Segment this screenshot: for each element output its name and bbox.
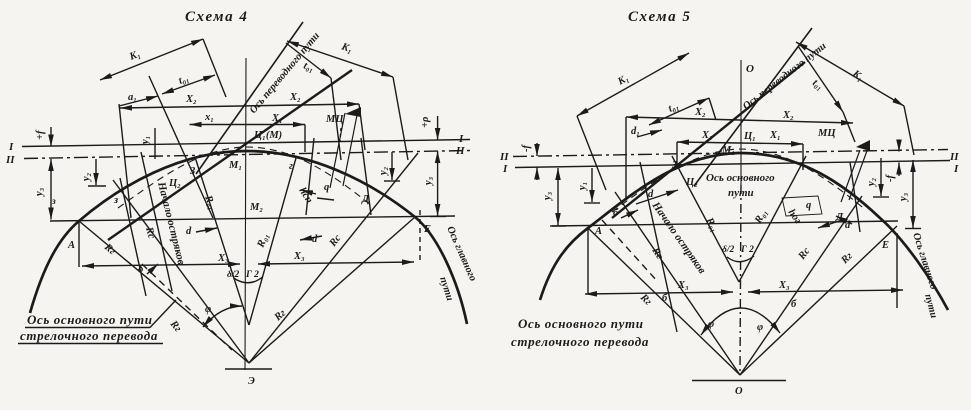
- svg-text:Rс: Rс: [796, 246, 813, 263]
- svg-text:a₁: a₁: [128, 92, 137, 103]
- svg-text:t₀₁: t₀₁: [810, 78, 825, 93]
- svg-text:+f: +f: [35, 129, 46, 140]
- svg-text:А: А: [594, 226, 602, 237]
- svg-text:y₂: y₂: [378, 166, 389, 177]
- svg-text:q: q: [324, 182, 329, 193]
- svg-text:стрелочного перевода: стрелочного перевода: [20, 328, 158, 343]
- svg-text:Rг: Rг: [839, 251, 855, 267]
- svg-text:X₂: X₂: [694, 107, 706, 118]
- svg-text:з: з: [113, 195, 118, 206]
- svg-text:-f: -f: [521, 144, 532, 152]
- svg-text:δ/2: δ/2: [722, 245, 735, 255]
- svg-text:б: б: [613, 208, 619, 219]
- svg-text:x₁: x₁: [204, 112, 214, 123]
- svg-text:Начало остряков: Начало остряков: [155, 180, 187, 266]
- svg-text:φ: φ: [205, 304, 211, 315]
- svg-text:Ось основного: Ось основного: [706, 172, 775, 184]
- svg-text:φ: φ: [757, 322, 763, 333]
- svg-text:+ρ: +ρ: [420, 116, 431, 128]
- svg-text:Ось переводного пути: Ось переводного пути: [741, 41, 829, 113]
- svg-text:R₀₁: R₀₁: [202, 193, 218, 211]
- svg-text:I: I: [458, 133, 464, 145]
- svg-text:Схема 4: Схема 4: [185, 9, 248, 25]
- svg-text:пути: пути: [922, 293, 939, 320]
- svg-text:Е: Е: [423, 224, 431, 235]
- svg-text:y₃: y₃: [542, 191, 553, 202]
- svg-text:II: II: [499, 151, 509, 163]
- svg-text:пути: пути: [437, 276, 455, 303]
- svg-text:t₀₁: t₀₁: [302, 60, 315, 74]
- svg-text:K₁: K₁: [339, 41, 354, 55]
- svg-text:y₃: y₃: [423, 176, 434, 187]
- svg-text:d: d: [186, 226, 192, 237]
- svg-text:X₃: X₃: [293, 251, 305, 262]
- svg-text:пути: пути: [728, 187, 754, 199]
- svg-text:II: II: [5, 154, 15, 166]
- svg-text:I: I: [953, 163, 959, 175]
- svg-text:Rг: Rг: [101, 241, 117, 257]
- svg-text:Rг: Rг: [167, 318, 183, 334]
- svg-text:О: О: [735, 386, 743, 397]
- svg-text:X₂: X₂: [289, 92, 301, 103]
- svg-text:Ось главного: Ось главного: [444, 225, 478, 283]
- svg-text:Д: Д: [361, 194, 370, 205]
- svg-text:q: q: [806, 200, 811, 211]
- svg-text:δ: δ: [138, 264, 144, 275]
- svg-text:y₁: y₁: [140, 136, 151, 146]
- svg-text:Ось основного пути: Ось основного пути: [27, 312, 153, 327]
- svg-text:X₁: X₁: [271, 113, 283, 124]
- svg-text:X₁: X₁: [769, 130, 781, 141]
- svg-text:X₃: X₃: [677, 280, 689, 291]
- svg-text:М₁: М₁: [228, 160, 242, 171]
- svg-text:d₁: d₁: [631, 126, 640, 137]
- svg-text:б: б: [662, 293, 668, 304]
- svg-text:K₁: K₁: [615, 73, 631, 88]
- svg-text:δ/2: δ/2: [227, 270, 240, 280]
- svg-text:Ц₁: Ц₁: [743, 131, 756, 142]
- svg-text:Ось главного: Ось главного: [910, 232, 939, 291]
- svg-text:y₁: y₁: [577, 182, 588, 192]
- svg-text:y₂: y₂: [81, 172, 92, 183]
- svg-text:hсп: hсп: [296, 186, 314, 206]
- svg-text:Ц₂: Ц₂: [168, 178, 181, 189]
- svg-text:Rг: Rг: [272, 308, 288, 324]
- svg-text:М₁: М₁: [721, 145, 735, 156]
- svg-text:Г 2: Г 2: [740, 245, 754, 255]
- svg-text:d: d: [648, 189, 654, 200]
- svg-text:Rг: Rг: [637, 292, 653, 308]
- svg-text:З: З: [189, 166, 196, 177]
- svg-text:Е: Е: [881, 240, 889, 251]
- svg-text:-f: -f: [885, 174, 896, 182]
- svg-text:стрелочного перевода: стрелочного перевода: [511, 334, 649, 349]
- svg-text:K₁: K₁: [127, 49, 142, 63]
- svg-text:Rс: Rс: [649, 245, 665, 262]
- svg-text:Ось основного пути: Ось основного пути: [518, 316, 644, 331]
- svg-text:X₂: X₂: [185, 94, 197, 105]
- svg-text:II: II: [455, 145, 465, 157]
- svg-text:R₀₁: R₀₁: [255, 232, 271, 250]
- svg-text:y₃: y₃: [898, 192, 909, 203]
- svg-text:М₂: М₂: [249, 202, 263, 213]
- svg-text:б: б: [791, 299, 797, 310]
- svg-text:d: d: [312, 234, 318, 245]
- svg-text:Ц₂: Ц₂: [685, 177, 698, 188]
- svg-text:г: г: [289, 161, 293, 172]
- svg-text:Rс: Rс: [143, 225, 157, 240]
- svg-text:φ: φ: [708, 319, 714, 330]
- svg-text:y₂: y₂: [866, 177, 877, 188]
- svg-text:Схема 5: Схема 5: [628, 9, 691, 25]
- svg-text:I: I: [502, 163, 508, 175]
- svg-text:X₃: X₃: [778, 280, 790, 291]
- svg-text:О: О: [746, 63, 754, 75]
- svg-text:X₂: X₂: [782, 110, 794, 121]
- svg-text:d: d: [845, 220, 851, 231]
- svg-text:МЦ: МЦ: [325, 114, 344, 125]
- svg-text:А: А: [67, 240, 75, 251]
- svg-text:Ц₁(М): Ц₁(М): [253, 130, 282, 141]
- svg-text:Г 2: Г 2: [245, 270, 259, 280]
- svg-text:Rс: Rс: [327, 233, 344, 250]
- svg-text:Д: Д: [835, 212, 844, 223]
- svg-text:З: З: [671, 160, 678, 171]
- svg-text:II: II: [949, 151, 959, 163]
- svg-text:X₁: X₁: [701, 130, 713, 141]
- svg-text:y₃: y₃: [34, 187, 45, 198]
- svg-text:Начало остряков: Начало остряков: [649, 199, 708, 276]
- svg-text:I: I: [8, 141, 14, 153]
- svg-text:Э: Э: [248, 376, 255, 387]
- svg-text:МЦ: МЦ: [817, 128, 836, 139]
- svg-text:t₀₁: t₀₁: [667, 101, 681, 115]
- svg-text:з: з: [51, 197, 56, 207]
- svg-text:X₃: X₃: [217, 253, 229, 264]
